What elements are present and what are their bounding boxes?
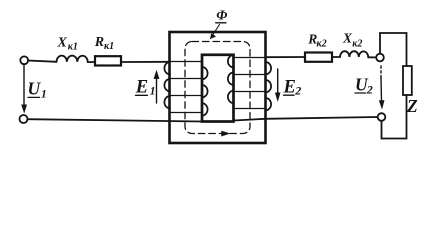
arrow E1 xyxy=(154,71,159,103)
wire Rk1-core xyxy=(121,61,170,63)
svg-text:E: E xyxy=(135,78,148,98)
winding W1 outer arcs xyxy=(164,62,170,108)
wire core-Rk2 xyxy=(266,56,306,58)
svg-text:к1: к1 xyxy=(104,41,114,52)
wire right-bottom rail xyxy=(234,117,378,121)
resistor Rk1 xyxy=(95,56,121,65)
arrow U2 xyxy=(379,66,384,109)
terminal right-top xyxy=(376,54,384,62)
svg-text:к2: к2 xyxy=(352,39,362,50)
core window xyxy=(202,55,234,122)
wire load top loop xyxy=(380,33,407,66)
svg-text:к2: к2 xyxy=(317,39,327,50)
winding W1 window arcs xyxy=(202,67,208,116)
terminal left-bottom xyxy=(20,115,28,123)
svg-text:2: 2 xyxy=(366,83,373,97)
wire Xk1-Rk1 xyxy=(88,61,95,63)
arrow E2 xyxy=(275,69,280,101)
flux path dashed xyxy=(185,42,250,134)
winding W2 window arcs xyxy=(228,55,234,103)
label Rk1 xyxy=(94,35,114,52)
winding W2 crossings xyxy=(234,58,266,109)
leader Phi arrow xyxy=(210,25,219,39)
label E1 xyxy=(135,78,156,98)
svg-text:2: 2 xyxy=(294,84,301,98)
inductor Xk1 xyxy=(57,56,88,63)
winding W1 crossings xyxy=(170,62,202,113)
svg-text:к1: к1 xyxy=(68,42,78,53)
arrow U1 xyxy=(22,66,27,113)
svg-text:X: X xyxy=(57,36,68,51)
label Z xyxy=(406,96,418,116)
core outer xyxy=(170,32,266,143)
label U1 xyxy=(28,79,47,101)
terminal left-top xyxy=(20,56,28,64)
wire left-bottom rail xyxy=(27,119,202,121)
flux direction arrow xyxy=(222,131,230,136)
winding W2 outer arcs xyxy=(266,62,272,110)
label Rk2 xyxy=(307,32,326,50)
load Z xyxy=(403,66,412,95)
wire left-top rail a xyxy=(28,61,57,62)
svg-text:U: U xyxy=(28,79,42,99)
wire load bottom loop xyxy=(382,95,407,139)
label E2 xyxy=(283,78,302,98)
label Phi xyxy=(216,9,228,24)
svg-text:1: 1 xyxy=(41,89,47,101)
svg-text:R: R xyxy=(94,35,104,50)
label Xk2 xyxy=(342,31,362,50)
label U2 xyxy=(355,75,373,97)
wire Rk2-Xk2 xyxy=(332,56,340,58)
svg-text:Z: Z xyxy=(406,96,418,116)
terminal right-bottom xyxy=(378,113,386,121)
wire Xk2-terminal xyxy=(368,56,376,58)
resistor Rk2 xyxy=(305,53,332,62)
svg-text:Φ: Φ xyxy=(216,9,227,24)
inductor Xk2 xyxy=(340,51,368,57)
svg-text:1: 1 xyxy=(150,86,156,98)
label Xk1 xyxy=(57,36,78,53)
